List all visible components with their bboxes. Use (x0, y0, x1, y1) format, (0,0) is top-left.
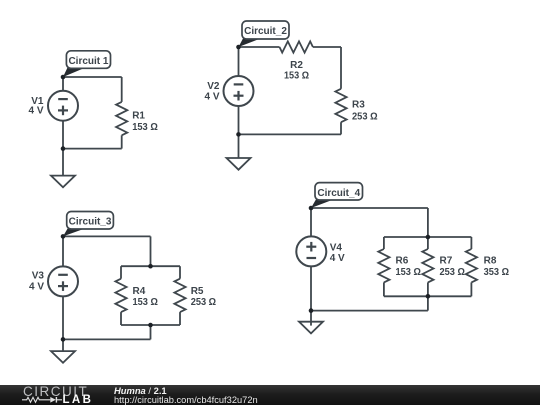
svg-text:253 Ω: 253 Ω (440, 267, 465, 278)
svg-text:4 V: 4 V (28, 106, 43, 117)
svg-text:153 Ω: 153 Ω (132, 122, 158, 133)
svg-text:R4: R4 (133, 286, 146, 297)
svg-text:R5: R5 (191, 286, 204, 297)
svg-text:4 V: 4 V (204, 92, 219, 103)
svg-text:4 V: 4 V (29, 281, 44, 292)
svg-text:253 Ω: 253 Ω (191, 297, 216, 308)
svg-text:R2: R2 (290, 60, 303, 71)
svg-text:353 Ω: 353 Ω (484, 267, 509, 278)
svg-text:153 Ω: 153 Ω (396, 267, 421, 278)
svg-text:Circuit_4: Circuit_4 (317, 188, 360, 199)
svg-text:153 Ω: 153 Ω (133, 297, 158, 308)
svg-text:153 Ω: 153 Ω (284, 70, 309, 81)
svg-text:R7: R7 (440, 256, 453, 267)
svg-text:V3: V3 (32, 271, 45, 282)
svg-text:R1: R1 (132, 110, 145, 121)
svg-text:Circuit 1: Circuit 1 (68, 56, 108, 67)
svg-text:Circuit_3: Circuit_3 (69, 217, 112, 228)
svg-text:R3: R3 (352, 99, 365, 110)
svg-text:R6: R6 (396, 256, 409, 267)
svg-text:V4: V4 (330, 243, 343, 254)
svg-text:253 Ω: 253 Ω (352, 112, 378, 123)
svg-text:Circuit_2: Circuit_2 (244, 26, 287, 37)
svg-text:4 V: 4 V (330, 253, 345, 264)
svg-text:V2: V2 (207, 81, 220, 92)
svg-text:R8: R8 (484, 256, 497, 267)
